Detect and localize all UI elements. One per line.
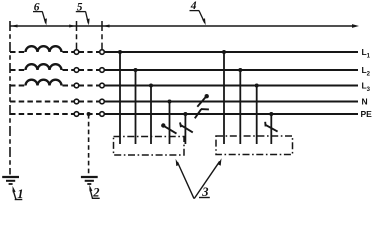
svg-text:5: 5 (77, 1, 83, 13)
svg-text:6: 6 (34, 1, 40, 13)
svg-text:2: 2 (92, 186, 99, 200)
svg-text:4: 4 (190, 0, 197, 12)
svg-text:3: 3 (201, 185, 208, 199)
svg-text:1: 1 (17, 187, 23, 201)
svg-text:PE: PE (361, 109, 373, 119)
svg-text:N: N (362, 97, 368, 107)
